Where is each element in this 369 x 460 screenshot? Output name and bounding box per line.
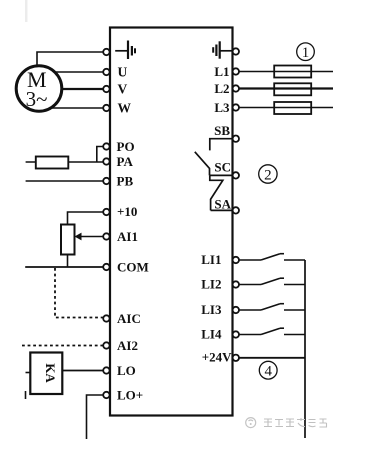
wire U: [39, 71, 104, 73]
svg-text:L2: L2: [214, 81, 229, 96]
svg-text:AI2: AI2: [117, 338, 138, 353]
braking resistor R1: [36, 157, 69, 169]
callout 1: [297, 43, 315, 61]
terminal SC: [233, 172, 239, 178]
terminal +24V: [233, 355, 239, 361]
bus wire down: [304, 260, 306, 438]
terminal L2: [233, 85, 239, 91]
wire SA: [211, 209, 233, 211]
svg-text:SC: SC: [214, 160, 231, 175]
wire stub tick: [25, 391, 27, 399]
wire LI3 with switch: [239, 304, 305, 310]
svg-text:LO+: LO+: [117, 388, 143, 403]
wire LI4 with switch: [239, 328, 305, 334]
wire COM: [25, 266, 103, 268]
terminal LI4: [233, 331, 239, 337]
potentiometer RP: [61, 225, 75, 255]
svg-text:COM: COM: [117, 260, 149, 275]
terminal AIC: [103, 315, 109, 321]
terminal L3: [233, 104, 239, 110]
inverter block U0: [110, 28, 233, 416]
wire +24V: [239, 357, 305, 359]
ground symbol left (PE): [115, 41, 135, 60]
terminal V: [103, 86, 109, 92]
svg-text:LI1: LI1: [201, 252, 221, 267]
terminal SA: [233, 207, 239, 213]
dashed wire AI2: [22, 345, 104, 347]
callout 4: [259, 361, 277, 379]
svg-text:L1: L1: [214, 64, 229, 79]
ground symbol right: [213, 41, 232, 58]
svg-text:4: 4: [264, 364, 272, 380]
svg-text:1: 1: [302, 45, 310, 61]
wire LI2 with switch: [239, 278, 305, 284]
terminal W: [103, 105, 109, 111]
motor M 3~: [16, 66, 62, 112]
svg-text:LO: LO: [117, 363, 136, 378]
callout 2: [259, 165, 277, 184]
terminal AI2: [103, 342, 109, 348]
terminal AI1: [103, 233, 109, 239]
terminal L1: [233, 68, 239, 74]
svg-text:SA: SA: [214, 197, 231, 212]
terminal PB: [103, 178, 109, 184]
svg-text:AI1: AI1: [117, 229, 138, 244]
svg-text:2: 2: [264, 168, 272, 184]
wire PB: [26, 180, 104, 182]
wire PO jumper: [97, 147, 104, 163]
wire AI1 wiper: [81, 236, 104, 238]
svg-text:SB: SB: [214, 123, 230, 138]
watermark text: [264, 418, 327, 427]
svg-text:W: W: [118, 101, 132, 116]
wire KA stub left: [26, 372, 31, 374]
terminal +10: [103, 209, 109, 215]
switch linkage SC-SA: [210, 175, 223, 210]
wire KA to LO: [62, 370, 103, 372]
terminal COM: [103, 264, 109, 270]
terminal PO: [103, 143, 109, 149]
terminal LO+: [103, 392, 109, 398]
wire SC: [210, 174, 233, 176]
terminal gnd-left: [103, 49, 109, 55]
terminal PA: [103, 158, 109, 164]
wire L3: [239, 107, 333, 109]
svg-text:+24V: +24V: [202, 350, 232, 365]
dashed wire COM to AIC: [55, 268, 104, 318]
wire W: [39, 107, 104, 109]
wiper arrow: [75, 233, 82, 241]
svg-text:U: U: [118, 65, 128, 80]
terminal LO: [103, 367, 109, 373]
svg-text:LI4: LI4: [201, 327, 222, 342]
watermark logo: [246, 418, 256, 428]
terminal U: [103, 69, 109, 75]
terminal LI1: [233, 257, 239, 263]
terminal gnd-right: [233, 48, 239, 54]
terminal LI2: [233, 281, 239, 287]
relay KA box: [30, 353, 62, 395]
svg-text:PB: PB: [117, 174, 134, 189]
wire +10 to potentiometer: [68, 212, 104, 225]
terminal SB: [233, 136, 239, 142]
wire motor ground: [37, 52, 104, 68]
fuse FU3: [274, 102, 311, 114]
fuse FU1: [274, 66, 311, 78]
fuse FU2: [274, 83, 311, 95]
wire LI1 with switch: [239, 254, 305, 260]
watermark smudge top-left: [25, 0, 28, 22]
svg-text:+10: +10: [117, 204, 137, 219]
svg-text:LI3: LI3: [201, 302, 222, 317]
wire L2: [239, 87, 333, 89]
switch blade SB-SC: [195, 152, 210, 176]
terminal LI3: [233, 307, 239, 313]
wire LO+ down: [87, 395, 104, 439]
svg-text:PO: PO: [117, 139, 135, 154]
svg-text:V: V: [118, 82, 128, 97]
svg-text:3~: 3~: [26, 87, 48, 111]
svg-text:PA: PA: [117, 154, 134, 169]
svg-text:LI2: LI2: [201, 277, 221, 292]
wire V: [39, 88, 104, 90]
wire L1: [239, 71, 333, 73]
svg-text:KA: KA: [43, 363, 58, 383]
svg-text:L3: L3: [214, 100, 230, 115]
svg-text:AIC: AIC: [117, 311, 141, 326]
wire SB: [210, 139, 233, 151]
wire potentiometer to COM: [67, 255, 69, 268]
wire PA with braking resistor lead: [26, 161, 104, 163]
